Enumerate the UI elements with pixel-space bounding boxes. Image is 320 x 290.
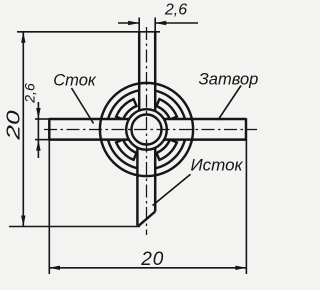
svg-text:2,6: 2,6 — [164, 2, 187, 19]
svg-text:Сток: Сток — [53, 72, 97, 90]
svg-text:20: 20 — [140, 249, 164, 270]
svg-text:Исток: Исток — [190, 156, 243, 175]
svg-text:2,6: 2,6 — [22, 83, 38, 104]
svg-text:20: 20 — [2, 110, 23, 141]
svg-text:Затвор: Затвор — [199, 71, 259, 89]
